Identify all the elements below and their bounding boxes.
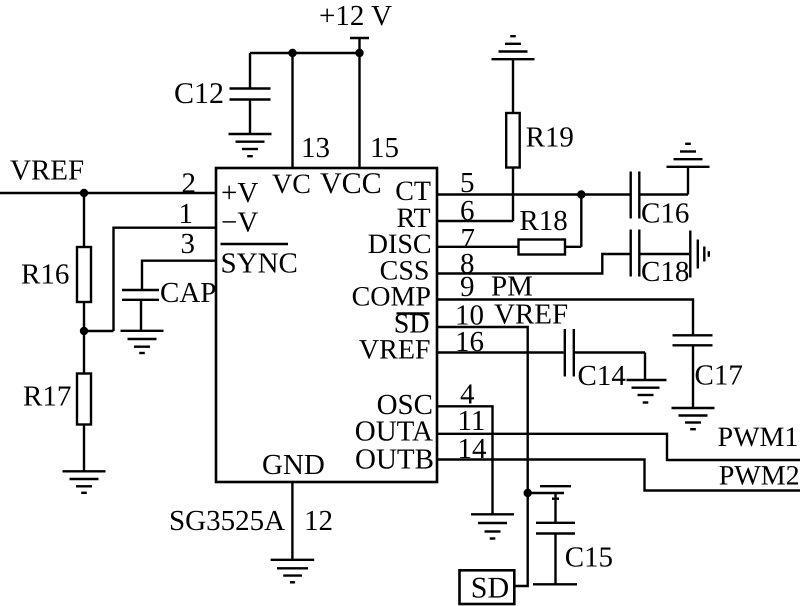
svg-text:R16: R16 [21, 259, 69, 291]
wire pin 7 DISC [437, 246, 519, 248]
svg-text:C15: C15 [565, 542, 613, 574]
svg-text:12: 12 [304, 505, 333, 537]
svg-text:VREF: VREF [494, 299, 568, 331]
ground below OSC [471, 514, 514, 538]
svg-text:+12 V: +12 V [319, 0, 392, 32]
svg-text:14: 14 [458, 433, 488, 465]
wire pin 4 OSC [437, 406, 493, 514]
capacitor C12 [174, 53, 271, 133]
ground below C17 [672, 408, 715, 429]
svg-text:C12: C12 [174, 77, 224, 110]
svg-text:R18: R18 [519, 205, 567, 237]
svg-text:SG3525A: SG3525A [169, 505, 285, 537]
svg-text:OUTB: OUTB [355, 444, 434, 476]
ground above R19 (inverted) [492, 36, 535, 59]
svg-text:GND: GND [262, 449, 325, 481]
capacitor C18 [631, 230, 690, 289]
ground below CAP [121, 331, 164, 353]
wire pin 10 SD [437, 327, 528, 586]
wire VCC pin 15 [358, 53, 360, 168]
resistor R18 [519, 195, 582, 255]
svg-text:C14: C14 [578, 360, 627, 392]
wire VC pin 13 [291, 53, 293, 168]
svg-text:R17: R17 [23, 381, 71, 413]
pin SD label with overline [394, 309, 430, 340]
node junction VREF / R16 [80, 189, 88, 197]
svg-text:VREF: VREF [10, 155, 84, 187]
node junction SD / C15 [524, 489, 532, 497]
wire pin 1 [114, 228, 217, 331]
ground below C14 [627, 380, 667, 403]
capacitor C17 [673, 335, 743, 407]
resistor R19 [506, 60, 574, 221]
op-amp U1 SG3525A box [169, 168, 437, 537]
svg-text:C16: C16 [641, 198, 689, 230]
wire pin 5 CT [437, 193, 630, 195]
wire GND pin 12 [291, 482, 293, 559]
pin SYNC label with overline [221, 244, 298, 280]
capacitor C16 [631, 168, 690, 230]
svg-text:CAP: CAP [160, 277, 216, 309]
wire pin 14 OUTB to PWM2 [437, 460, 800, 491]
svg-text:16: 16 [455, 326, 484, 358]
capacitor C14 [565, 329, 645, 392]
ground below R17 [63, 471, 106, 493]
wire pin 16 VREF [437, 351, 564, 353]
ground above C16 (inverted) [667, 144, 710, 167]
node junction top rail / VCC [355, 49, 363, 57]
svg-text:VREF: VREF [359, 335, 431, 366]
capacitor CAP [122, 277, 216, 330]
wire pin 11 OUTA to PWM1 [437, 434, 800, 460]
svg-text:PWM2: PWM2 [719, 461, 800, 492]
wire junction to C15 [528, 492, 564, 494]
capacitor C15 [533, 493, 613, 584]
svg-text:−V: −V [221, 207, 258, 239]
node junction R16/R17 [80, 327, 88, 335]
power +12V terminal [319, 0, 392, 53]
svg-text:C17: C17 [695, 360, 743, 392]
ground below GND [271, 560, 315, 583]
svg-text:2: 2 [182, 168, 197, 200]
ground right of C18 (sideways) [690, 231, 709, 278]
svg-text:SD: SD [471, 572, 509, 605]
node junction CT / R18 [577, 190, 585, 198]
svg-text:1: 1 [179, 198, 194, 230]
capacitor C15 top plate bar [540, 485, 571, 487]
resistor R17 [23, 331, 91, 471]
wire pin 9 COMP [437, 300, 693, 336]
svg-text:VCC: VCC [320, 167, 382, 200]
svg-text:VC: VC [272, 169, 311, 200]
svg-text:13: 13 [301, 132, 330, 164]
svg-text:9: 9 [460, 271, 475, 303]
svg-text:PWM1: PWM1 [718, 422, 799, 453]
resistor R16 [21, 193, 91, 331]
svg-text:3: 3 [181, 228, 196, 260]
svg-text:C18: C18 [641, 256, 689, 288]
wire junction to pin1 riser [84, 330, 114, 332]
svg-text:15: 15 [370, 132, 399, 164]
SD source box [460, 570, 515, 604]
wire pin 6 RT [437, 220, 513, 222]
wire pin 3 SYNC [142, 261, 216, 291]
svg-text:SYNC: SYNC [221, 248, 298, 280]
node junction top rail / VC [288, 49, 296, 57]
wire pin 8 CSS [437, 254, 630, 274]
wire top rail [250, 52, 360, 54]
wire pin 2 from VREF [0, 192, 216, 194]
svg-text:+V: +V [221, 177, 258, 209]
ground below C12 [229, 134, 272, 156]
svg-text:R19: R19 [526, 122, 574, 154]
